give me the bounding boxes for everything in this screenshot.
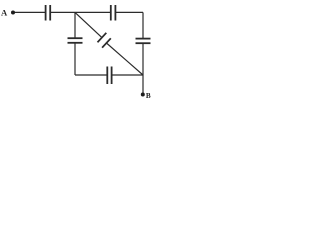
wire C3 to bottom-left corner (74, 43, 76, 75)
wire J1 to C2 (75, 11, 111, 13)
capacitor C3 (68, 38, 83, 43)
wire top-right corner down to C4 (142, 12, 144, 38)
capacitor C1 (46, 5, 51, 21)
wire C2 to top-right corner (115, 11, 143, 13)
node A dot (11, 11, 15, 15)
wire C6 to bottom-right junction (112, 74, 143, 76)
wire C4 down to node B (142, 43, 144, 94)
capacitor C4 (136, 39, 151, 44)
capacitor C6 (107, 67, 111, 85)
wire C5 diagonal to bottom-right junction (106, 43, 143, 75)
wire J1 diagonal to C5 (75, 12, 102, 37)
capacitor C5 (98, 33, 111, 48)
wire C1 to node J1 (50, 11, 75, 13)
capacitor C2 (111, 5, 116, 21)
wire J1 down to C3 (74, 12, 76, 38)
svg-text:A: A (1, 7, 8, 17)
node B dot (141, 93, 145, 97)
wire bottom-left corner to C6 (75, 74, 107, 76)
wire A to C1 (13, 11, 46, 13)
svg-text:B: B (146, 92, 151, 100)
